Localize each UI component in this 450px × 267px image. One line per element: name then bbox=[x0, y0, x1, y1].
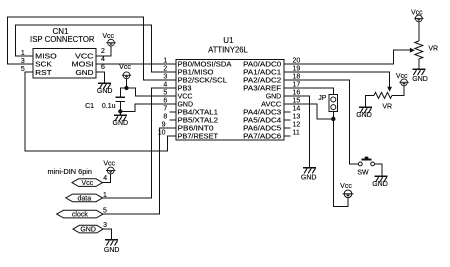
arrow VR2 wiper bbox=[387, 87, 392, 92]
net label GND tag bbox=[73, 225, 103, 233]
svg-text:GND: GND bbox=[301, 175, 317, 182]
svg-text:GND: GND bbox=[97, 88, 113, 95]
wire CN1 pin4 MOSI to U1 pin1 bbox=[96, 63, 176, 65]
svg-text:6: 6 bbox=[163, 97, 167, 104]
svg-text:5: 5 bbox=[103, 208, 107, 215]
power Vcc at VR1 bbox=[414, 15, 423, 22]
svg-text:PB3: PB3 bbox=[178, 86, 192, 93]
svg-text:PA5/ADC4: PA5/ADC4 bbox=[243, 118, 281, 125]
svg-text:VR: VR bbox=[428, 45, 438, 52]
U1 pin 12 stub bbox=[284, 127, 291, 129]
svg-text:Vcc: Vcc bbox=[411, 10, 423, 17]
svg-text:ATTINY26L: ATTINY26L bbox=[208, 45, 248, 54]
svg-text:2: 2 bbox=[163, 65, 167, 72]
junction dot AVCC node bbox=[331, 117, 335, 121]
power Vcc at CN1 bbox=[106, 39, 115, 46]
svg-text:PA2/ADC2: PA2/ADC2 bbox=[243, 78, 281, 85]
net label clock tag bbox=[57, 210, 103, 218]
svg-text:SW: SW bbox=[357, 170, 369, 177]
svg-text:GND: GND bbox=[372, 181, 388, 188]
ground at SW bbox=[375, 176, 388, 182]
svg-text:19: 19 bbox=[293, 65, 301, 72]
svg-text:PB5/XTAL2: PB5/XTAL2 bbox=[178, 118, 219, 125]
ground at mini-DIN bbox=[105, 240, 118, 246]
svg-text:GND: GND bbox=[412, 76, 428, 83]
svg-text:GND: GND bbox=[104, 247, 120, 254]
wire U1 pin19 to VR2 wiper bbox=[284, 72, 390, 88]
switch SW contact right bbox=[371, 162, 375, 166]
svg-text:4: 4 bbox=[163, 81, 167, 88]
U1 pin 7 stub bbox=[170, 111, 177, 113]
wire U1 pin17 AREF to JP bbox=[284, 88, 333, 95]
svg-text:mini-DIN 6pin: mini-DIN 6pin bbox=[48, 169, 93, 176]
svg-text:5: 5 bbox=[21, 66, 25, 73]
svg-text:Vcc: Vcc bbox=[340, 183, 352, 190]
ground at VR2 bbox=[359, 107, 372, 113]
svg-text:PA1/ADC1: PA1/ADC1 bbox=[243, 70, 281, 77]
wire VR1 top to Vcc bbox=[418, 22, 420, 41]
svg-text:PB1/MISO: PB1/MISO bbox=[178, 70, 215, 77]
wire U1 pin18 to SW bbox=[284, 80, 358, 164]
svg-text:GND: GND bbox=[76, 70, 94, 77]
svg-text:16: 16 bbox=[293, 89, 301, 96]
switch SW contact left bbox=[358, 162, 362, 166]
junction dot C1 ground node bbox=[118, 109, 122, 113]
svg-text:2: 2 bbox=[101, 48, 105, 55]
svg-text:8: 8 bbox=[163, 113, 167, 120]
ground at VR1 bbox=[412, 69, 425, 75]
wire U1 pin16 GND to ground bbox=[284, 96, 310, 168]
svg-text:C1: C1 bbox=[85, 103, 94, 110]
svg-text:PA7/ADC6: PA7/ADC6 bbox=[243, 134, 281, 141]
svg-text:VCC: VCC bbox=[75, 53, 94, 60]
svg-text:15: 15 bbox=[293, 97, 301, 104]
svg-text:ISP CONNECTOR: ISP CONNECTOR bbox=[30, 35, 95, 44]
capacitor C1 bbox=[116, 97, 126, 101]
svg-text:4: 4 bbox=[103, 175, 107, 182]
wire VR2 right to Vcc bbox=[392, 85, 404, 95]
svg-text:7: 7 bbox=[163, 105, 167, 112]
svg-text:data: data bbox=[77, 195, 91, 202]
wire Vcc to C1 and U1 pin5 VCC bbox=[120, 79, 176, 98]
svg-text:PA3/AREF: PA3/AREF bbox=[243, 86, 281, 93]
svg-text:Vcc: Vcc bbox=[81, 180, 93, 187]
svg-text:GND: GND bbox=[356, 112, 372, 119]
wire C1 bottom to ground and U1 pin6 GND bbox=[120, 102, 176, 116]
svg-text:4: 4 bbox=[101, 56, 105, 63]
junction dot Vcc/C1 node bbox=[124, 86, 128, 90]
wire clock tag to U1 pin9 INT0 bbox=[103, 128, 176, 214]
svg-text:PB7/RESET: PB7/RESET bbox=[178, 134, 219, 141]
wire U1 pin15 AVCC to JP and Vcc bbox=[284, 104, 348, 207]
svg-text:1: 1 bbox=[163, 57, 167, 64]
wire GND tag to ground bbox=[103, 229, 112, 240]
IC U1 body bbox=[176, 60, 284, 141]
svg-text:17: 17 bbox=[293, 81, 301, 88]
svg-text:VCC: VCC bbox=[178, 94, 193, 101]
svg-text:3: 3 bbox=[103, 222, 107, 229]
svg-text:3: 3 bbox=[163, 73, 167, 80]
svg-text:10: 10 bbox=[158, 129, 166, 136]
svg-text:11: 11 bbox=[293, 129, 300, 136]
jumper JP pad 1 bbox=[331, 97, 336, 102]
wire VR2 left to ground bbox=[366, 95, 375, 107]
svg-text:MOSI: MOSI bbox=[72, 62, 94, 69]
ground at C1 bbox=[114, 115, 127, 121]
svg-text:PA6/ADC5: PA6/ADC5 bbox=[243, 126, 281, 133]
wire U1 pin20 to VR1 wiper bbox=[284, 50, 411, 64]
svg-text:GND: GND bbox=[113, 120, 129, 127]
svg-text:PB4/XTAL1: PB4/XTAL1 bbox=[178, 110, 219, 117]
connector CN1 body bbox=[33, 48, 96, 78]
jumper JP pad 2 bbox=[331, 105, 336, 110]
svg-text:Vcc: Vcc bbox=[102, 33, 114, 40]
svg-text:GND: GND bbox=[178, 102, 194, 109]
ground at CN1 pin6 bbox=[98, 83, 111, 89]
potentiometer VR2 bbox=[374, 92, 392, 98]
svg-text:U1: U1 bbox=[223, 36, 234, 45]
svg-text:9: 9 bbox=[162, 121, 166, 128]
svg-text:5: 5 bbox=[163, 89, 167, 96]
svg-text:Vcc: Vcc bbox=[119, 64, 131, 71]
svg-text:Vcc: Vcc bbox=[396, 73, 408, 80]
switch SW button bbox=[365, 157, 369, 160]
svg-text:12: 12 bbox=[293, 121, 301, 128]
wire CN1 pin5 RST to U1 pin10 bbox=[25, 72, 176, 151]
arrow VR1 wiper bbox=[410, 48, 415, 53]
wire SW to ground bbox=[375, 164, 383, 176]
U1 pin 14 stub bbox=[284, 111, 291, 113]
wire CN1 pin6 to ground bbox=[96, 72, 105, 83]
power Vcc at C1 bbox=[122, 72, 131, 79]
wire VR1 bottom to ground bbox=[418, 59, 420, 69]
svg-text:13: 13 bbox=[293, 113, 301, 120]
svg-text:VR: VR bbox=[382, 104, 392, 111]
U1 pin 13 stub bbox=[284, 119, 291, 121]
svg-text:GND: GND bbox=[80, 227, 96, 234]
svg-text:20: 20 bbox=[293, 57, 301, 64]
wire data tag to U1 pin4 PB3 bbox=[103, 88, 177, 198]
svg-text:PB2/SCK/SCL: PB2/SCK/SCL bbox=[178, 78, 228, 85]
svg-text:JP: JP bbox=[318, 95, 327, 102]
switch SW actuator bbox=[362, 159, 372, 161]
U1 pin 8 stub bbox=[170, 119, 177, 121]
svg-text:PB6/INT0: PB6/INT0 bbox=[178, 126, 214, 133]
potentiometer VR1 bbox=[415, 41, 423, 59]
svg-text:6: 6 bbox=[101, 64, 105, 71]
U1 pin 11 stub bbox=[284, 135, 291, 137]
svg-text:PB0/MOSI/SDA: PB0/MOSI/SDA bbox=[178, 62, 232, 69]
svg-text:clock: clock bbox=[72, 212, 88, 219]
wire CN1 pin1 MISO to U1 pin2 bbox=[16, 25, 177, 72]
wire CN1 pin2 to Vcc bbox=[96, 46, 111, 56]
svg-text:SCK: SCK bbox=[35, 62, 52, 69]
svg-text:MISO: MISO bbox=[35, 53, 57, 60]
svg-text:18: 18 bbox=[293, 73, 301, 80]
net label data tag bbox=[66, 194, 103, 202]
svg-text:14: 14 bbox=[293, 105, 301, 112]
wire CN1 pin3 SCK to U1 pin3 bbox=[8, 17, 177, 80]
power Vcc at AVCC bbox=[343, 190, 354, 198]
power Vcc at mini-DIN bbox=[106, 167, 115, 174]
svg-text:AVCC: AVCC bbox=[261, 102, 281, 109]
ground at U1 pin16 bbox=[303, 168, 316, 174]
svg-text:RST: RST bbox=[35, 70, 52, 77]
net label Vcc tag bbox=[72, 179, 103, 187]
svg-text:Vcc: Vcc bbox=[103, 161, 115, 168]
svg-text:PA0/ADC0: PA0/ADC0 bbox=[243, 62, 281, 69]
jumper JP body bbox=[329, 95, 338, 112]
wire Vcc tag to Vcc bbox=[103, 174, 111, 183]
svg-text:PA4/ADC3: PA4/ADC3 bbox=[243, 110, 281, 117]
svg-text:GND: GND bbox=[266, 94, 282, 101]
svg-text:0.1u: 0.1u bbox=[102, 103, 116, 110]
power Vcc at VR2 bbox=[399, 79, 408, 86]
